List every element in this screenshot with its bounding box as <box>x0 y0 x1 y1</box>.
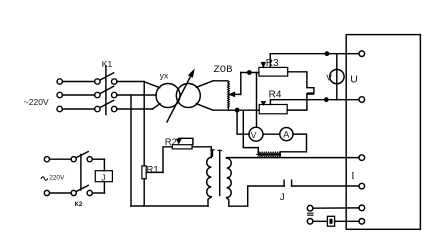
svg-text:~220V: ~220V <box>24 97 49 107</box>
svg-text:V: V <box>251 130 257 140</box>
svg-text:yx: yx <box>160 71 169 81</box>
svg-text:U: U <box>350 73 358 85</box>
svg-text:R2: R2 <box>165 137 177 148</box>
svg-text:K2: K2 <box>75 202 83 208</box>
svg-text:A: A <box>283 130 289 140</box>
svg-text:J: J <box>280 192 285 203</box>
svg-text:V: V <box>326 72 332 82</box>
svg-text:K1: K1 <box>102 59 113 69</box>
svg-text:I: I <box>351 171 354 182</box>
svg-text:R4: R4 <box>269 90 282 101</box>
svg-text:R1: R1 <box>147 164 159 175</box>
svg-text:J: J <box>101 173 105 183</box>
svg-text:ZOB: ZOB <box>214 64 233 76</box>
svg-text:R3: R3 <box>266 58 279 69</box>
svg-text:220V: 220V <box>49 175 65 182</box>
